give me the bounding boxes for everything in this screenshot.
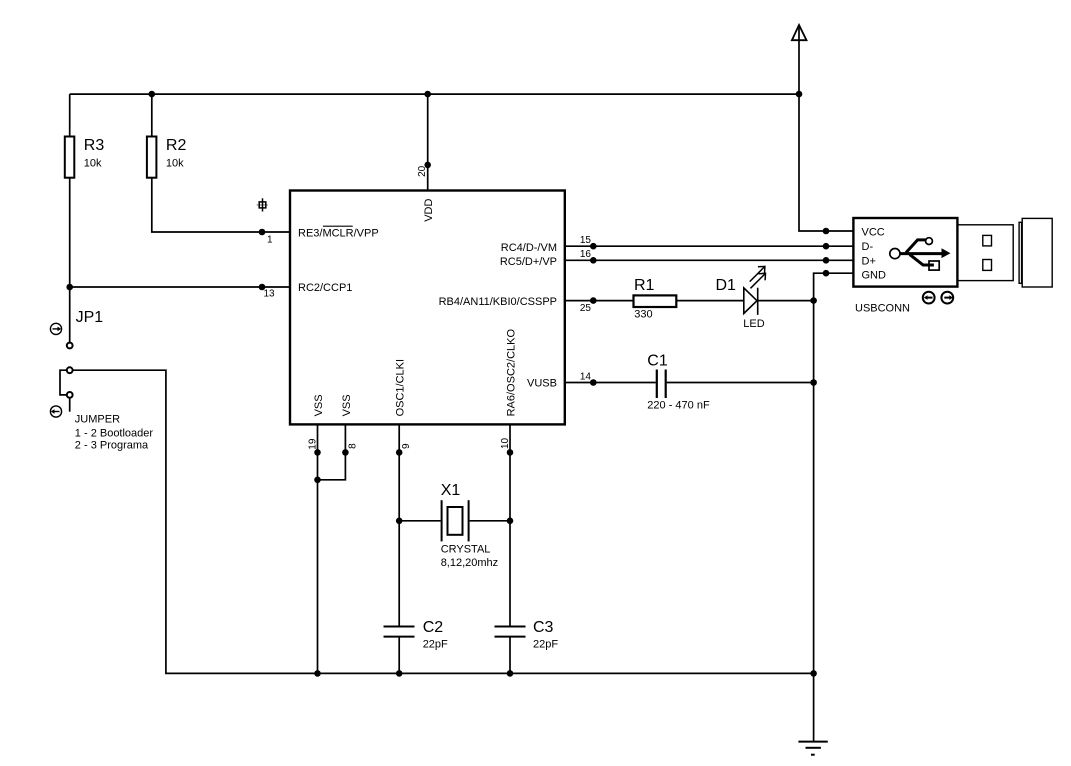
svg-text:8,12,20mhz: 8,12,20mhz (441, 557, 498, 569)
svg-text:10k: 10k (166, 158, 184, 170)
USB trident logo (890, 238, 942, 270)
svg-text:JP1: JP1 (76, 309, 104, 326)
wire top rail (70, 93, 799, 95)
svg-text:VSS: VSS (341, 394, 353, 416)
wire R2 column top (151, 94, 153, 136)
svg-text:GND: GND (862, 269, 887, 281)
svg-text:VSS: VSS (313, 394, 325, 416)
wire pin 25 to R1 (565, 300, 634, 302)
node rail-VDD (424, 91, 431, 98)
node GND pin (823, 270, 830, 277)
svg-text:D-: D- (862, 241, 874, 253)
resistor R1 (634, 277, 677, 321)
wire VSS pin 19 column (317, 424, 319, 673)
svg-text:9: 9 (401, 443, 412, 449)
jumper JP1 (67, 309, 154, 452)
node crystal left (396, 518, 403, 525)
USB arrowhead (942, 248, 951, 258)
svg-text:22pF: 22pF (533, 639, 558, 651)
svg-text:1: 1 (267, 235, 273, 246)
marker arrow left jumper (50, 406, 61, 417)
svg-text:19: 19 (308, 438, 319, 450)
USB plug body (957, 218, 1052, 287)
node pin13 (259, 284, 266, 291)
ground (798, 742, 827, 755)
node rail-GND (810, 670, 817, 677)
svg-text:15: 15 (580, 235, 592, 246)
node pin25 (590, 297, 597, 304)
wire GND pin down (814, 273, 854, 741)
resistor R3 (65, 137, 105, 178)
IC pin numbers (264, 165, 592, 449)
node rail-VCC (796, 91, 803, 98)
wire crystal right (470, 520, 510, 522)
svg-text:JUMPER: JUMPER (75, 413, 120, 425)
marker arrow left USB (923, 292, 935, 304)
svg-text:VDD: VDD (423, 199, 435, 222)
node pin9 (396, 449, 403, 456)
svg-text:16: 16 (580, 249, 592, 260)
svg-text:2 - 3 Programa: 2 - 3 Programa (75, 440, 149, 452)
svg-text:22pF: 22pF (423, 639, 448, 651)
capacitor C1 (647, 353, 710, 412)
wire jumper bracket (60, 370, 67, 395)
wire VSS pin 8 column (318, 424, 346, 479)
node R3-RC2 (66, 284, 73, 291)
svg-text:1 - 2 Bootloader: 1 - 2 Bootloader (75, 428, 154, 440)
resistor R2 (147, 137, 187, 178)
svg-text:25: 25 (580, 303, 592, 314)
svg-text:RC2/CCP1: RC2/CCP1 (298, 282, 352, 294)
node rail-C3 (507, 670, 514, 677)
svg-text:8: 8 (347, 443, 358, 449)
svg-text:10k: 10k (84, 158, 102, 170)
wire VCC from power rail (799, 25, 853, 231)
svg-text:RC5/D+/VP: RC5/D+/VP (500, 256, 557, 268)
op-amp U1 IC box PIC18F2550 (290, 191, 565, 425)
node D+ (823, 257, 830, 264)
svg-text:RA6/OSC2/CLKO: RA6/OSC2/CLKO (506, 329, 518, 417)
svg-text:C2: C2 (423, 619, 444, 636)
wire R3 column top (69, 94, 71, 136)
capacitor C3 (495, 619, 559, 651)
svg-text:VUSB: VUSB (527, 377, 557, 389)
svg-text:13: 13 (264, 289, 276, 300)
wire D1 to GND column (758, 300, 814, 302)
node VCC pin (823, 228, 830, 235)
svg-text:330: 330 (634, 309, 652, 321)
wire C1 to GND column (667, 382, 814, 384)
wire OSC1 column upper (398, 424, 400, 626)
wire R3 column bottom to JP1 (69, 178, 71, 342)
USB connector USBCONN (853, 218, 957, 314)
origin marker near pin 1 (257, 198, 268, 211)
svg-text:10: 10 (500, 437, 511, 449)
marker arrow right JP1 (50, 323, 61, 334)
wire OSC1 column lower (398, 637, 400, 674)
power flag VCC (792, 25, 807, 40)
node D- (823, 243, 830, 250)
svg-text:VCC: VCC (862, 227, 885, 239)
svg-text:LED: LED (743, 318, 764, 330)
wire R1 to D1 (677, 300, 744, 302)
wire RC2 to pin 13 (70, 286, 290, 288)
svg-text:R1: R1 (634, 277, 655, 294)
node pin15 (590, 243, 597, 250)
svg-text:X1: X1 (441, 482, 461, 499)
node pin1 (259, 229, 266, 236)
wire jumper to bottom rail (73, 370, 814, 673)
node C1-GND (810, 379, 817, 386)
wire jumper pin3 stub (69, 398, 71, 412)
wire RA6 column lower (509, 637, 511, 674)
svg-text:R2: R2 (166, 137, 187, 154)
node VDD stub (424, 162, 431, 169)
diode D1 LED (716, 266, 766, 330)
svg-text:USBCONN: USBCONN (855, 302, 910, 314)
wire pin 16 to D+ (565, 259, 853, 261)
svg-text:R3: R3 (84, 137, 105, 154)
wire crystal left (399, 520, 440, 522)
node VSS join (314, 477, 321, 484)
svg-text:220 - 470 nF: 220 - 470 nF (647, 399, 710, 411)
node pin10 (507, 449, 514, 456)
svg-text:CRYSTAL: CRYSTAL (441, 543, 491, 555)
svg-text:D1: D1 (716, 277, 737, 294)
wire pin 14 to C1 (565, 382, 656, 384)
node pin8 (342, 449, 349, 456)
node crystal right (507, 518, 514, 525)
marker arrow right USB (941, 292, 953, 304)
svg-text:C3: C3 (533, 619, 554, 636)
node rail-C2 (396, 670, 403, 677)
node rail-R2 (149, 91, 156, 98)
crystal X1 (441, 482, 498, 569)
wire pin 15 to D- (565, 245, 853, 247)
node pin19 (314, 449, 321, 456)
wire RA6 column upper (509, 424, 511, 626)
svg-text:RC4/D-/VM: RC4/D-/VM (501, 242, 557, 254)
wire VDD column (427, 94, 429, 190)
IC pin labels (298, 199, 557, 417)
svg-text:C1: C1 (647, 353, 668, 370)
svg-text:14: 14 (580, 372, 592, 383)
svg-text:RB4/AN11/KBI0/CSSPP: RB4/AN11/KBI0/CSSPP (439, 296, 557, 308)
capacitor C2 (384, 619, 449, 651)
node rail-VSS (314, 670, 321, 677)
node pin16 (590, 257, 597, 264)
node pin14 (590, 379, 597, 386)
svg-text:D+: D+ (862, 255, 876, 267)
svg-text:OSC1/CLKI: OSC1/CLKI (395, 359, 407, 416)
node LED-GND (810, 297, 817, 304)
svg-text:RE3/MCLR/VPP: RE3/MCLR/VPP (298, 227, 379, 239)
wire R2 to pin 1 (152, 178, 290, 232)
